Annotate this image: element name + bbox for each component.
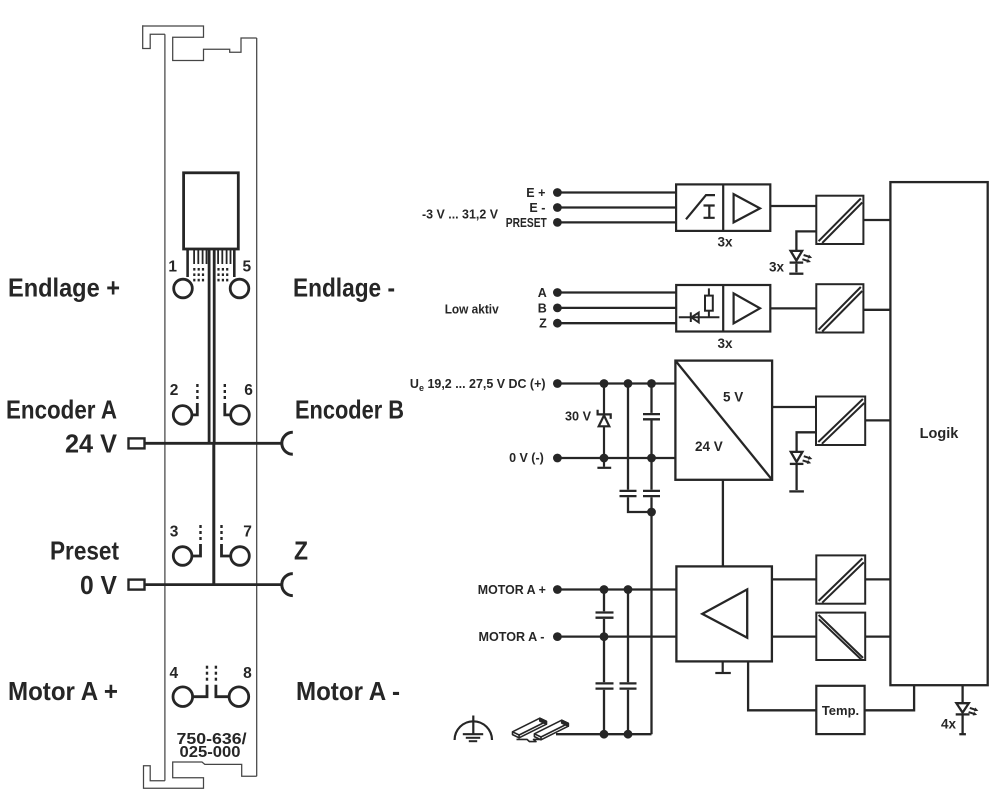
optocoupler OC2: [816, 284, 863, 332]
wire A to input stage: [557, 291, 676, 293]
svg-text:E +: E +: [526, 186, 545, 200]
wire B to input stage: [557, 307, 676, 309]
LED D4 lead from Logik: [961, 685, 963, 703]
svg-text:Preset: Preset: [50, 535, 119, 565]
connector K1 (flat-cable plug): [184, 173, 239, 249]
junction dot A- at C4: [600, 632, 609, 641]
LED D3: [789, 452, 804, 492]
svg-text:Z: Z: [539, 317, 547, 331]
junction dot 0V at zener: [600, 454, 609, 463]
0V feed wire: [145, 583, 282, 586]
svg-text:6: 6: [244, 382, 253, 399]
svg-text:4: 4: [169, 665, 178, 682]
terminal 1 clamp circle: [174, 279, 193, 298]
wire Temp to U4: [748, 661, 816, 710]
node E- terminal dot: [553, 203, 562, 212]
wire PRESET to comparator: [557, 221, 676, 223]
svg-text:B: B: [538, 301, 547, 315]
junction dot rail C6: [624, 730, 633, 739]
U2 diode: [679, 312, 720, 322]
svg-text:MOTOR A -: MOTOR A -: [479, 630, 545, 644]
DIN rail clamp icon: [513, 718, 569, 741]
wire PE riser down to earth rail: [650, 512, 652, 734]
node Ue terminal dot: [553, 379, 562, 388]
optocoupler OC5 (reverse diagonal): [816, 613, 865, 660]
svg-text:0 V: 0 V: [80, 570, 118, 600]
svg-text:0 V (-): 0 V (-): [509, 451, 544, 465]
capacitor C3 branch (0V to PE): [643, 458, 660, 512]
capacitor C1 (+ to 0V): [643, 384, 660, 459]
svg-text:5 V: 5 V: [723, 390, 743, 405]
U4 power stage triangle: [702, 589, 747, 637]
24V socket arc: [282, 432, 293, 454]
terminal 5 clamp circle: [230, 279, 249, 298]
svg-text:5: 5: [242, 258, 251, 275]
wire Z to input stage: [557, 322, 676, 324]
wire branch to LED D1: [796, 231, 816, 250]
junction dot 0V at C1: [647, 454, 656, 463]
wire MOTOR A- to amplifier: [557, 635, 676, 637]
svg-text:3: 3: [170, 523, 179, 540]
svg-text:025-000: 025-000: [180, 744, 241, 761]
svg-text:8: 8: [243, 665, 252, 682]
wire U3 down to motor amplifier: [722, 480, 724, 567]
svg-text:3x: 3x: [717, 235, 733, 250]
Logik box: [890, 182, 987, 685]
dotted stub above terminal 7: [220, 525, 222, 540]
svg-text:Endlage -: Endlage -: [293, 273, 395, 303]
wire-bundle dot grid right: [217, 268, 228, 281]
svg-text:MOTOR A +: MOTOR A +: [478, 583, 546, 597]
input stage U2 box (diode/resistor + amplifier): [676, 285, 770, 332]
zener chassis tick: [597, 458, 611, 468]
dotted stub above terminal 4: [206, 666, 208, 681]
center bus wire continuation to 0V: [212, 443, 215, 583]
wire OC1 to Logik: [863, 219, 890, 221]
U4 chassis tick: [715, 661, 731, 673]
svg-text:Endlage +: Endlage +: [8, 273, 120, 303]
dotted stub above terminal 2: [196, 384, 198, 399]
svg-text:Low aktiv: Low aktiv: [445, 302, 499, 316]
capacitor C2 branch (+ to PE): [620, 384, 652, 513]
junction dot PE bus: [647, 508, 656, 517]
wire U3 to optocoupler OC3: [772, 406, 816, 408]
svg-text:3x: 3x: [717, 336, 733, 351]
svg-text:24 V: 24 V: [695, 439, 723, 454]
module bottom foot profile: [144, 762, 257, 788]
junction dot (+) at cap C1: [647, 379, 656, 388]
optocoupler OC1: [816, 196, 863, 244]
svg-text:Encoder B: Encoder B: [295, 395, 404, 425]
wire U4 to OC4: [772, 578, 816, 580]
svg-text:4x: 4x: [941, 716, 957, 731]
terminal 8 clamp with hook: [216, 685, 249, 707]
24V feed plug square: [129, 438, 145, 448]
dotted stub above terminal 8: [215, 666, 217, 681]
module body left edge: [164, 34, 166, 781]
svg-text:-3 V ... 31,2 V: -3 V ... 31,2 V: [422, 208, 499, 222]
svg-text:7: 7: [243, 523, 252, 540]
node MOTOR A+ terminal dot: [553, 585, 562, 594]
svg-text:Logik: Logik: [920, 426, 960, 442]
24V feed wire: [145, 442, 282, 445]
svg-text:1: 1: [168, 258, 177, 275]
svg-text:Motor A -: Motor A -: [296, 676, 400, 706]
junction dot rail C5: [600, 730, 609, 739]
U2 amplifier triangle: [734, 293, 760, 323]
earth rail: [556, 733, 652, 735]
U1 limiter symbol: [686, 195, 715, 219]
LED D1 emission arrows: [802, 255, 812, 263]
LED D4 emission arrows: [969, 708, 979, 716]
svg-text:e: e: [419, 383, 424, 393]
wire OC5 to Logik: [865, 635, 890, 637]
svg-text:PRESET: PRESET: [506, 216, 547, 230]
module top mounting profile: [143, 25, 257, 60]
wire OC4 to Logik: [865, 578, 890, 580]
capacitor C6 branch (A+ to PE): [620, 590, 637, 735]
terminal 4 clamp with hook: [173, 685, 207, 707]
junction dot (+) at cap C2: [624, 379, 633, 388]
wire E+ to comparator: [557, 191, 676, 193]
node MOTOR A- terminal dot: [553, 632, 562, 641]
terminal 2 clamp with hook: [173, 403, 197, 424]
capacitor C4 (A+ to A-): [596, 590, 614, 637]
U2 pull-up resistor: [705, 288, 713, 317]
LED D1: [789, 251, 803, 274]
junction dot (+) at zener: [600, 379, 609, 388]
svg-text:24 V: 24 V: [65, 429, 118, 459]
wire-bundle dot grid left: [193, 268, 204, 281]
svg-text:Motor A +: Motor A +: [8, 676, 118, 706]
wire U2 to optocoupler OC2: [770, 307, 816, 309]
svg-text:30 V: 30 V: [565, 410, 592, 424]
wire branch to LED D3: [797, 432, 816, 451]
wire 0V(-) to DC/DC: [557, 457, 675, 459]
node B terminal dot: [553, 304, 562, 313]
svg-text:U: U: [410, 377, 419, 391]
optocoupler OC3: [816, 397, 865, 446]
zener diode D2: [598, 384, 611, 459]
node 0V terminal dot: [553, 454, 562, 463]
capacitor C5 branch (A- to PE): [596, 637, 614, 735]
terminal 6 clamp with hook: [225, 403, 250, 424]
svg-text:Temp.: Temp.: [822, 703, 859, 718]
svg-text:19,2 ... 27,5 V DC (+): 19,2 ... 27,5 V DC (+): [428, 377, 546, 391]
svg-text:3x: 3x: [769, 260, 785, 275]
Temp box: [816, 686, 864, 734]
LED D4: [956, 703, 970, 734]
node PRESET terminal dot: [553, 218, 562, 227]
junction dot A+ at C6: [624, 585, 633, 594]
motor amplifier U4: [676, 566, 772, 661]
earth ground symbol: [455, 716, 492, 742]
LED D3 emission arrows: [803, 456, 813, 464]
U1 amplifier triangle: [734, 194, 760, 222]
0V socket arc: [282, 574, 293, 596]
svg-text:Z: Z: [294, 535, 308, 565]
junction dot A+ at C4: [600, 585, 609, 594]
wire Temp to Logik: [865, 685, 915, 710]
input stage U1 box (limiter + amplifier): [676, 184, 770, 231]
svg-text:2: 2: [170, 382, 179, 399]
DC/DC converter U3: [675, 361, 772, 480]
svg-text:Encoder A: Encoder A: [6, 395, 117, 425]
svg-text:E -: E -: [529, 201, 545, 215]
dotted stub above terminal 3: [199, 525, 201, 540]
0V feed plug square: [129, 580, 145, 590]
dotted stub above terminal 6: [224, 384, 226, 399]
connector pins right group: [218, 249, 234, 277]
terminal 3 clamp with hook: [173, 544, 200, 565]
wire OC3 to Logik: [865, 419, 890, 421]
svg-text:A: A: [538, 286, 547, 300]
optocoupler OC4: [816, 555, 865, 603]
connector pins left group: [188, 249, 207, 277]
center bus wire pair (24V/0V feed to connector): [209, 249, 214, 442]
node A terminal dot: [553, 288, 562, 297]
wire Ue(+) to DC/DC: [557, 382, 675, 384]
terminal 7 clamp with hook: [222, 544, 250, 565]
node Z terminal dot: [553, 319, 562, 328]
module body right edge: [256, 38, 258, 776]
wire E- to comparator: [557, 206, 676, 208]
wire U4 to OC5: [772, 635, 816, 637]
wire OC2 to Logik: [863, 309, 890, 311]
wire U1 to optocoupler OC1: [770, 205, 816, 207]
node E+ terminal dot: [553, 188, 562, 197]
wire MOTOR A+ to amplifier: [557, 588, 676, 590]
